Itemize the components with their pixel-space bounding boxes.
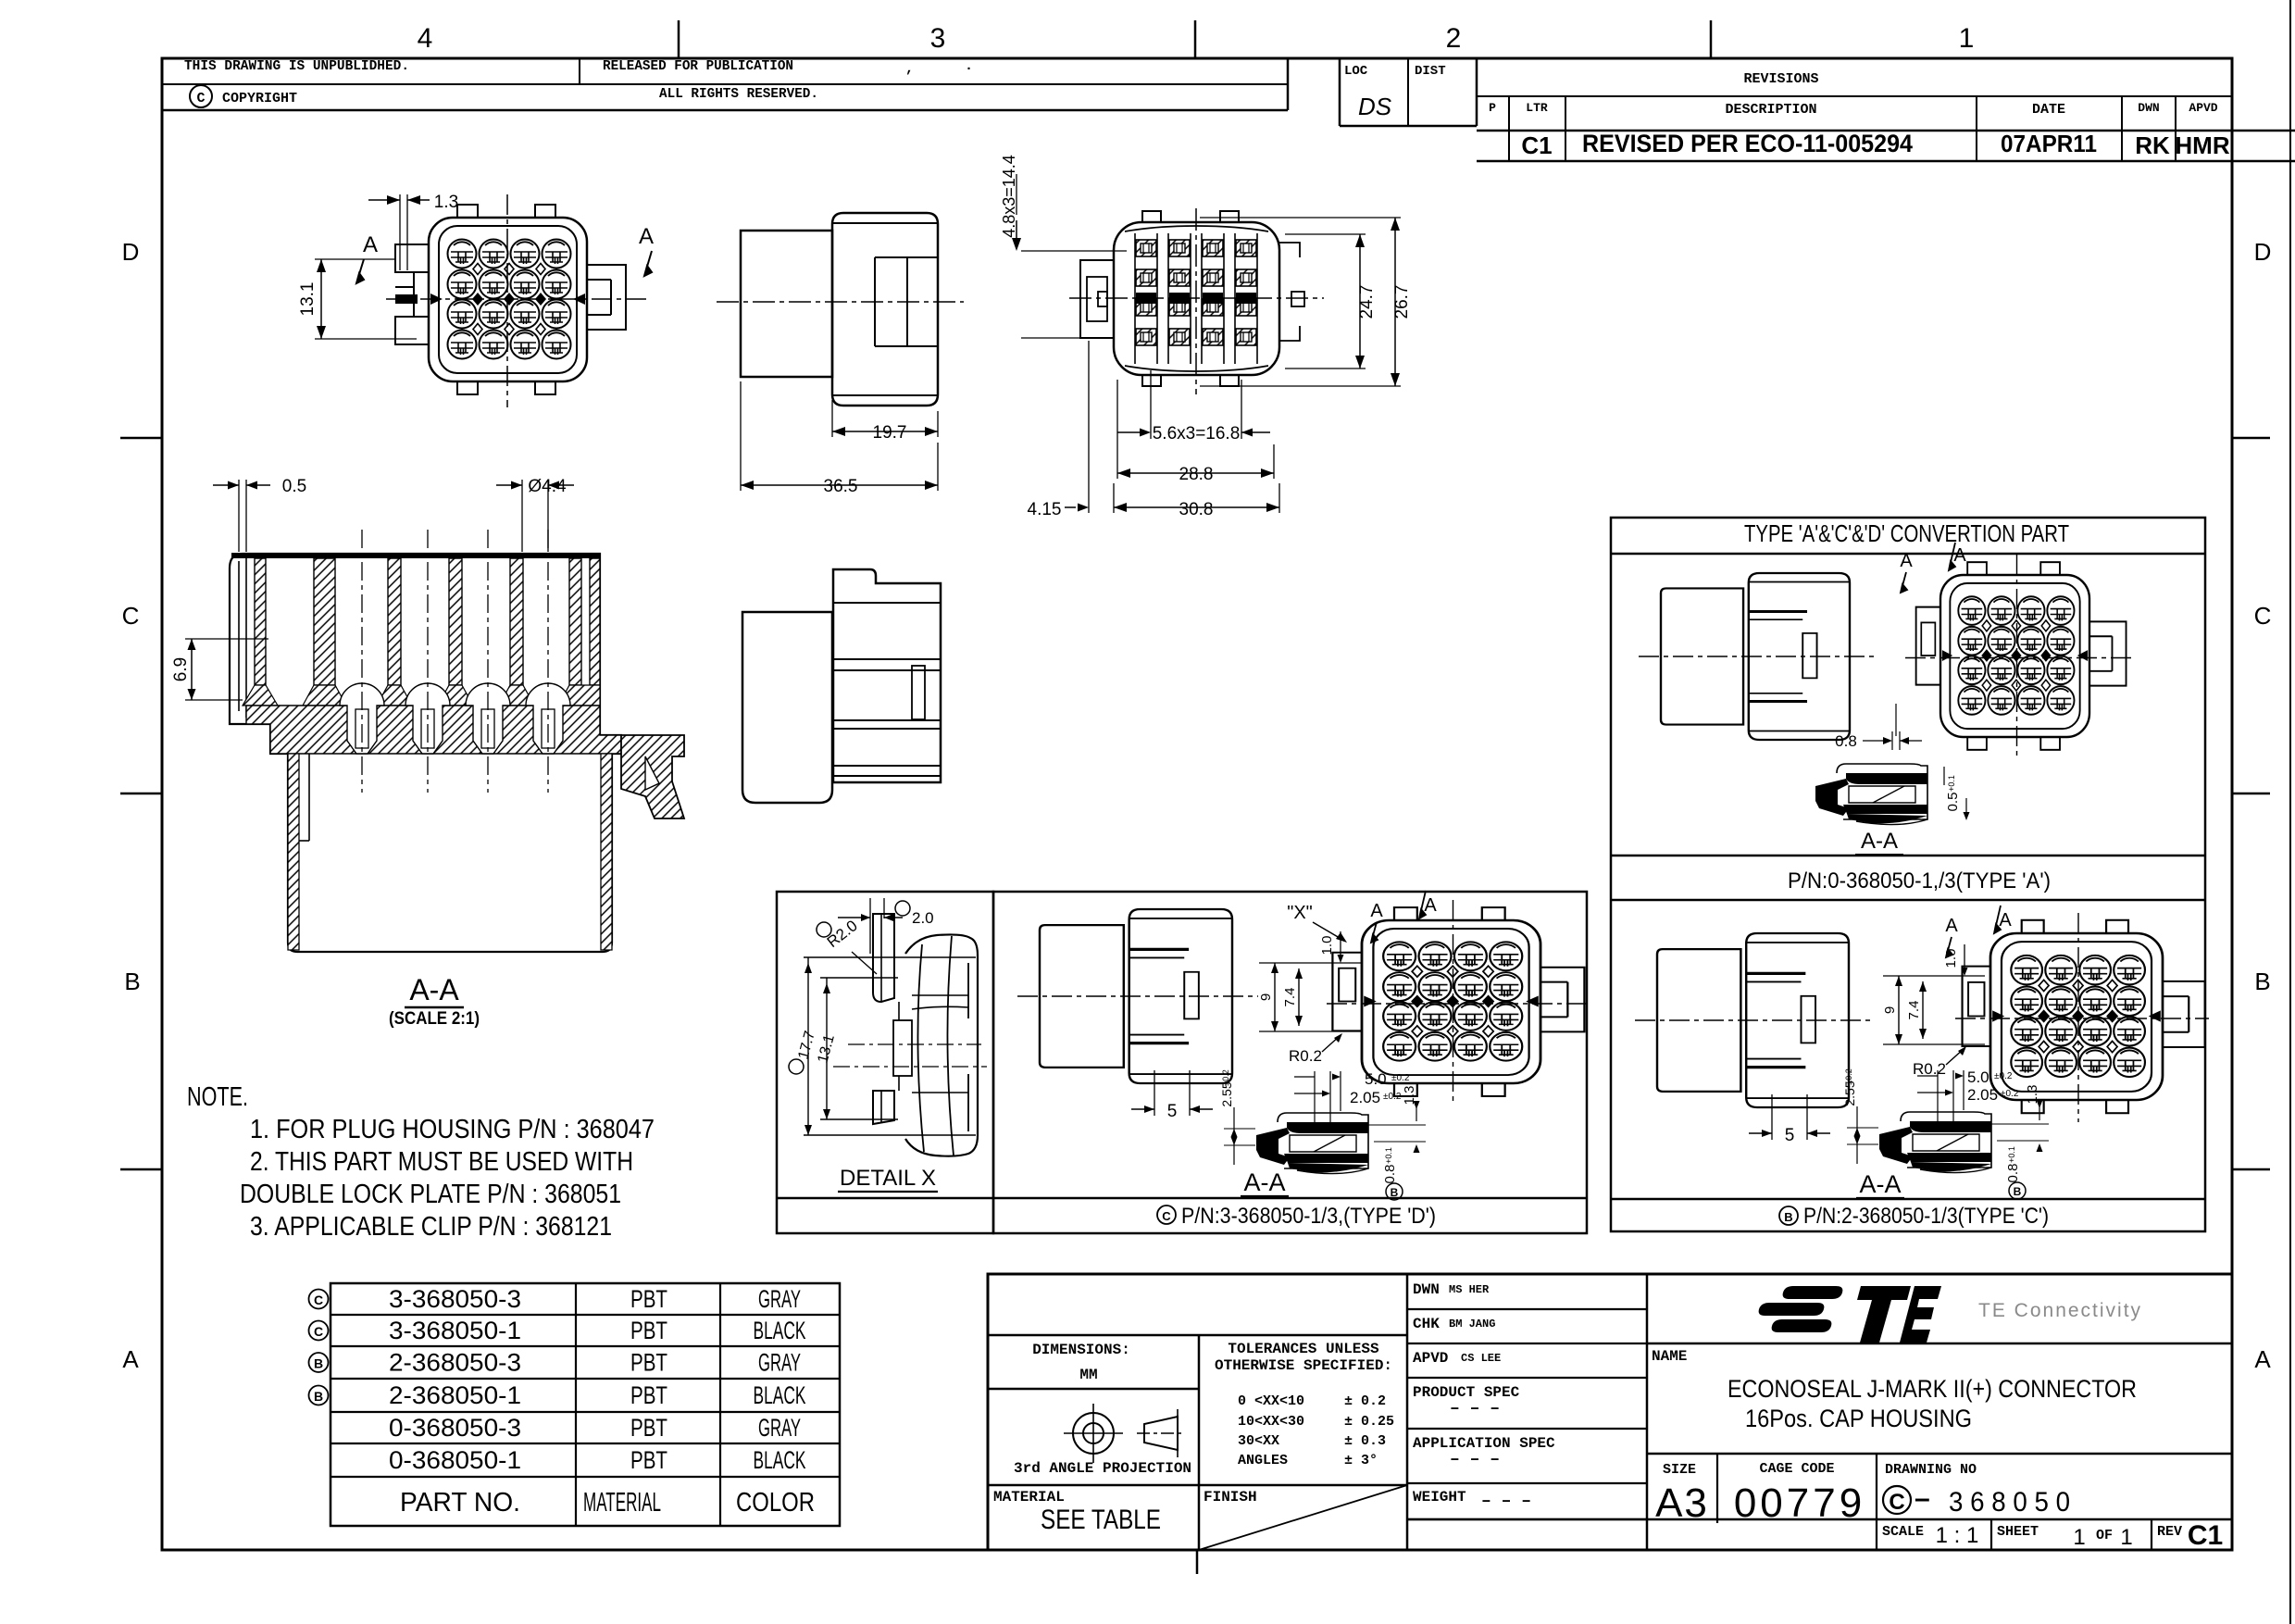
svg-text:1. FOR PLUG HOUSING P/N : 36: 1. FOR PLUG HOUSING P/N : 368047 [250, 1115, 655, 1144]
svg-text:BM JANG: BM JANG [1449, 1318, 1495, 1330]
zone tick right B/A [2232, 1168, 2270, 1171]
svg-text:SIZE: SIZE [1663, 1462, 1696, 1478]
svg-text:A-A: A-A [1861, 829, 1898, 854]
dim 6.9 (section) [185, 638, 268, 640]
svg-text:RK: RK [2135, 131, 2170, 159]
svg-text:OF: OF [2096, 1528, 2113, 1543]
svg-text:A: A [1370, 901, 1383, 921]
svg-text:DOUBLE LOCK PLATE P/N : 368051: DOUBLE LOCK PLATE P/N : 368051 [240, 1180, 621, 1209]
svg-text:NAME: NAME [1652, 1348, 1687, 1365]
dim 13.1 (main front view) [315, 258, 396, 260]
svg-text:0.8: 0.8 [2005, 1164, 2021, 1183]
svg-text:2.05: 2.05 [1350, 1089, 1380, 1106]
svg-text:C1: C1 [2188, 1520, 2223, 1551]
LOC box [1339, 58, 1341, 126]
zone tick right D/C [2232, 437, 2270, 440]
centerline main side view [717, 301, 964, 303]
svg-text:5.6x3=16.8: 5.6x3=16.8 [1153, 424, 1241, 443]
svg-text:MM: MM [1079, 1367, 1097, 1383]
dim 28.8 (rear view) [1116, 380, 1118, 479]
svg-text:ANGLES: ANGLES [1238, 1453, 1288, 1468]
svg-text:B: B [1391, 1186, 1399, 1199]
svg-text:B: B [124, 968, 140, 995]
svg-text:0-368050-3: 0-368050-3 [389, 1414, 521, 1442]
svg-text:B: B [314, 1356, 323, 1371]
zone tick top 4/3 [678, 20, 680, 58]
3rd angle projection cell [988, 1484, 1407, 1487]
svg-text:2.0: 2.0 [912, 909, 934, 927]
drawing number C-368050 [1883, 1486, 1911, 1514]
svg-text:2: 2 [1446, 23, 1462, 54]
svg-text:16Pos. CAP HOUSING: 16Pos. CAP HOUSING [1745, 1405, 1972, 1432]
copyright symbol [190, 85, 212, 107]
TYPE A mini section A-A [1815, 764, 1927, 825]
dim 9 (type D) [1259, 962, 1361, 964]
svg-text:A-A: A-A [1243, 1168, 1285, 1196]
P/N TYPE C label [1779, 1206, 1798, 1225]
svg-text:A: A [363, 232, 378, 257]
svg-text:C: C [1162, 1209, 1171, 1223]
svg-text:C: C [1889, 1490, 1904, 1515]
dim 26.7 (rear view) [1200, 217, 1401, 219]
svg-text:TE Connectivity: TE Connectivity [1978, 1300, 2142, 1321]
svg-text:PRODUCT SPEC: PRODUCT SPEC [1413, 1384, 1520, 1401]
svg-text:5: 5 [1167, 1102, 1178, 1121]
svg-text:WEIGHT: WEIGHT [1413, 1489, 1466, 1505]
projection symbol cone [1144, 1417, 1178, 1450]
svg-text:BLACK: BLACK [754, 1381, 806, 1409]
dims mini section (type C) [1937, 1070, 1939, 1121]
svg-text:+0.1: +0.1 [1947, 775, 1956, 792]
TYPE A front view [1916, 562, 2127, 750]
dim 30.8 (rear view) [1113, 483, 1115, 513]
svg-text:PBT: PBT [630, 1349, 667, 1377]
svg-text:COPYRIGHT: COPYRIGHT [222, 91, 297, 106]
svg-text:13.1: 13.1 [298, 282, 318, 317]
svg-text:3: 3 [930, 23, 946, 54]
svg-text:± 0.2: ± 0.2 [1344, 1393, 1386, 1409]
svg-text:CHK: CHK [1413, 1316, 1440, 1332]
svg-text:A: A [1953, 545, 1966, 566]
svg-text:CAGE CODE: CAGE CODE [1759, 1461, 1834, 1477]
svg-text:±0.2: ±0.2 [1383, 1092, 1402, 1102]
svg-text:A-A: A-A [1859, 1170, 1901, 1198]
dim 19.7 [831, 400, 833, 437]
svg-text:1.0: 1.0 [1319, 936, 1335, 956]
svg-text:1.3: 1.3 [434, 193, 458, 212]
svg-text:A: A [122, 1345, 139, 1373]
svg-text:B: B [1784, 1210, 1792, 1224]
svg-text:B: B [2254, 968, 2270, 995]
svg-text:5.0: 5.0 [1365, 1070, 1387, 1088]
DETAIL X box [777, 892, 993, 1233]
svg-text:4: 4 [418, 23, 433, 54]
svg-text:± 0.3: ± 0.3 [1344, 1433, 1386, 1449]
svg-text:DWN: DWN [2138, 101, 2159, 115]
TYPE C front view [1963, 920, 2205, 1113]
svg-text:DATE: DATE [2032, 102, 2065, 118]
svg-text:SEE TABLE: SEE TABLE [1041, 1505, 1161, 1535]
svg-text:6.9: 6.9 [171, 657, 191, 681]
dimensions cell [988, 1334, 1407, 1337]
leader to section (type A) [1895, 704, 1897, 736]
dim 4.15 (rear view) [1088, 341, 1090, 513]
svg-text:±0.2: ±0.2 [1391, 1073, 1410, 1083]
dim 2.0 (detail X) [869, 898, 871, 954]
dim R2.0 (detail X) [817, 922, 831, 937]
svg-text:REVISIONS: REVISIONS [1743, 71, 1818, 87]
svg-text:0.5: 0.5 [1945, 793, 1961, 812]
dim 36.5 [740, 381, 742, 491]
svg-text:APPLICATION SPEC: APPLICATION SPEC [1413, 1435, 1555, 1452]
svg-text:5: 5 [1785, 1126, 1795, 1145]
svg-text:±0.2: ±0.2 [1221, 1069, 1230, 1085]
svg-text:07APR11: 07APR11 [2001, 130, 2097, 157]
TYPE D mini section A-A [1256, 1113, 1368, 1174]
svg-text:3rd ANGLE PROJECTION: 3rd ANGLE PROJECTION [1014, 1460, 1191, 1477]
svg-text:C: C [314, 1293, 323, 1307]
dim 5 (type D side view) [1154, 1070, 1155, 1116]
svg-text:DRAWNING NO: DRAWNING NO [1885, 1462, 1977, 1478]
svg-text:LTR: LTR [1526, 101, 1548, 115]
zone tick bottom 2/1 [1196, 1550, 1199, 1574]
svg-text:3 6 8 0 5 0: 3 6 8 0 5 0 [1949, 1487, 2070, 1518]
svg-text:DWN: DWN [1413, 1281, 1440, 1298]
svg-text:B: B [2014, 1185, 2022, 1198]
svg-text:P: P [1489, 101, 1496, 115]
svg-text:DIST: DIST [1415, 64, 1446, 79]
svg-text:5.0: 5.0 [1967, 1068, 1989, 1086]
svg-text:D: D [122, 238, 140, 266]
svg-text:C: C [196, 91, 205, 106]
zone tick left C/B [120, 793, 162, 795]
TYPE C mini section A-A [1879, 1112, 1991, 1173]
parts table [331, 1283, 840, 1526]
svg-text:SHEET: SHEET [1997, 1524, 2039, 1540]
main side view [741, 213, 938, 406]
svg-text:19.7: 19.7 [873, 423, 907, 443]
svg-text:.: . [965, 58, 973, 74]
svg-text:DIMENSIONS:: DIMENSIONS: [1032, 1342, 1130, 1358]
svg-text:±0.2: ±0.2 [2001, 1089, 2019, 1099]
svg-text:PBT: PBT [630, 1414, 667, 1442]
svg-text:TYPE 'A'&'C'&'D' CONVERTION PA: TYPE 'A'&'C'&'D' CONVERTION PART [1744, 519, 2069, 547]
svg-text:9: 9 [1882, 1006, 1898, 1014]
zone tick left D/C [120, 437, 162, 440]
zone tick top 3/2 [1194, 20, 1197, 58]
TYPE D side view [1040, 909, 1232, 1083]
DETAIL X drawing: rotated housing top view [804, 914, 987, 1156]
svg-text:2-368050-3: 2-368050-3 [389, 1349, 521, 1377]
svg-text:MATERIAL: MATERIAL [583, 1488, 661, 1518]
TYPE A&C&D convertion part box [1611, 518, 2205, 1231]
zone tick right C/B [2232, 793, 2270, 795]
svg-text:ALL RIGHTS RESERVED.: ALL RIGHTS RESERVED. [659, 86, 818, 102]
second side view (middle) [742, 569, 941, 803]
svg-text:B: B [314, 1389, 323, 1404]
svg-text:30.8: 30.8 [1179, 500, 1214, 519]
svg-text:THIS DRAWING IS UNPUBLIDHED.: THIS DRAWING IS UNPUBLIDHED. [184, 58, 409, 74]
svg-text:REVISED PER ECO-11-005294: REVISED PER ECO-11-005294 [1582, 130, 1913, 157]
svg-text:1.0: 1.0 [1943, 949, 1959, 968]
svg-text:HMR: HMR [2175, 131, 2229, 159]
svg-text:APVD: APVD [1413, 1350, 1448, 1367]
svg-text:RELEASED FOR PUBLICATION: RELEASED FOR PUBLICATION [603, 58, 793, 74]
dim 0.5 (section) [238, 480, 240, 552]
middle column rows DWN/CHK/APVD/SPECS [1407, 1308, 1647, 1310]
svg-text:PBT: PBT [630, 1317, 667, 1344]
svg-text:R0.2: R0.2 [1913, 1060, 1946, 1078]
svg-text:24.7: 24.7 [1357, 285, 1377, 319]
svg-text:TOLERANCES UNLESS: TOLERANCES UNLESS [1228, 1341, 1379, 1357]
svg-text:COLOR: COLOR [736, 1488, 815, 1518]
svg-text:MS HER: MS HER [1449, 1283, 1490, 1296]
dim 5.6x3=16.8 (rear view) [1150, 370, 1152, 439]
svg-text:– – –: – – – [1481, 1493, 1531, 1511]
svg-text:REV: REV [2157, 1524, 2182, 1540]
svg-text:36.5: 36.5 [824, 477, 858, 496]
dim dia 4.4 (section) [521, 480, 523, 552]
TYPE D front view [1332, 907, 1584, 1096]
main front view: 16-pos cap housing face [386, 194, 648, 407]
TYPE A side view [1661, 573, 1850, 740]
svg-text:0.8: 0.8 [1835, 732, 1857, 750]
svg-text:± 0.25: ± 0.25 [1344, 1414, 1394, 1430]
svg-text:4.15: 4.15 [1028, 500, 1062, 519]
TE logo band [1647, 1343, 2232, 1345]
svg-text:1: 1 [2120, 1525, 2132, 1550]
dim 17.7 (detail X) [789, 1059, 804, 1074]
svg-text:R0.2: R0.2 [1289, 1047, 1322, 1065]
svg-text:1: 1 [1959, 23, 1975, 54]
svg-text:PBT: PBT [630, 1446, 667, 1474]
zone tick left B/A [120, 1168, 162, 1171]
svg-text:NOTE.: NOTE. [187, 1082, 248, 1112]
svg-text:3. APPLICABLE CLIP P/N : 36812: 3. APPLICABLE CLIP P/N : 368121 [250, 1212, 612, 1242]
svg-text:PBT: PBT [630, 1285, 667, 1313]
P/N TYPE D label [1157, 1206, 1176, 1224]
title block outline [988, 1274, 2232, 1550]
svg-text:10<XX<30: 10<XX<30 [1238, 1414, 1304, 1430]
svg-text:A: A [639, 224, 654, 249]
svg-text:1: 1 [2073, 1525, 2085, 1550]
rear view: 16-pos housing rear [1069, 208, 1324, 394]
svg-text:C: C [2254, 602, 2272, 630]
svg-text:2-368050-1: 2-368050-1 [389, 1381, 521, 1409]
svg-text:DETAIL X: DETAIL X [840, 1166, 936, 1191]
svg-text:C: C [314, 1324, 323, 1339]
svg-text:A: A [2254, 1345, 2271, 1373]
svg-text:A: A [1945, 916, 1958, 936]
svg-text:FINISH: FINISH [1204, 1489, 1257, 1505]
svg-text:26.7: 26.7 [1392, 285, 1412, 319]
size/cage/drawing row [1647, 1453, 2232, 1455]
dim 9 (type C) [1883, 975, 1985, 977]
svg-text:3-368050-3: 3-368050-3 [389, 1285, 521, 1313]
svg-text:4.8x3=14.4: 4.8x3=14.4 [1000, 155, 1018, 238]
svg-text:Ø4.4: Ø4.4 [528, 477, 567, 496]
scale/sheet/rev row [1407, 1518, 2232, 1521]
projection symbol target [1073, 1413, 1114, 1454]
svg-text:P/N:2-368050-1/3(TYPE 'C'): P/N:2-368050-1/3(TYPE 'C') [1803, 1204, 2049, 1229]
svg-text:28.8: 28.8 [1179, 465, 1214, 484]
dim 24.7 (rear view) [1285, 233, 1366, 235]
svg-text:(SCALE 2:1): (SCALE 2:1) [389, 1009, 480, 1029]
svg-text:PART NO.: PART NO. [400, 1488, 520, 1518]
svg-text:BLACK: BLACK [754, 1317, 806, 1344]
TYPE D box [993, 892, 1587, 1233]
sheet outer edge line (right) [2289, 0, 2291, 1624]
svg-text:"X": "X" [1287, 903, 1313, 923]
svg-text:0 <XX<10: 0 <XX<10 [1238, 1393, 1304, 1409]
svg-text:CS LEE: CS LEE [1461, 1352, 1501, 1365]
svg-text:A-A: A-A [409, 973, 459, 1006]
svg-text:DESCRIPTION: DESCRIPTION [1725, 102, 1816, 118]
svg-text:0.8: 0.8 [1382, 1165, 1398, 1184]
svg-text:GRAY: GRAY [758, 1285, 801, 1313]
svg-text:9: 9 [1258, 993, 1274, 1001]
TYPE C side view [1657, 933, 1849, 1107]
finish diagonal [1199, 1485, 1407, 1550]
svg-text:DS: DS [1358, 93, 1392, 120]
svg-text:2. THIS PART MUST BE USED WITH: 2. THIS PART MUST BE USED WITH [250, 1147, 633, 1177]
svg-text:OTHERWISE SPECIFIED:: OTHERWISE SPECIFIED: [1215, 1357, 1392, 1374]
svg-text:GRAY: GRAY [758, 1414, 801, 1442]
svg-text:P/N:0-368050-1,/3(TYPE 'A'): P/N:0-368050-1,/3(TYPE 'A') [1788, 868, 2051, 893]
svg-text:±0.2: ±0.2 [1994, 1071, 2013, 1081]
REVISIONS table [1477, 95, 2232, 97]
svg-text:+0.1: +0.1 [1384, 1147, 1393, 1164]
dim 5 (type C side view) [1771, 1094, 1773, 1140]
svg-text:– – –: – – – [1450, 1451, 1500, 1469]
dim 7.4 (type D) [1298, 968, 1300, 1026]
svg-text:– – –: – – – [1450, 1400, 1500, 1418]
svg-text:7.4: 7.4 [1906, 1001, 1922, 1020]
svg-text:0-368050-1: 0-368050-1 [389, 1446, 521, 1474]
svg-text:A: A [1424, 895, 1437, 916]
header strip box [162, 83, 1288, 85]
svg-text:GRAY: GRAY [758, 1349, 801, 1377]
dim 1.3 (main front view) [399, 194, 401, 270]
svg-text:BLACK: BLACK [754, 1446, 806, 1474]
TE logo [1759, 1286, 1941, 1343]
svg-text:C1: C1 [1521, 131, 1552, 159]
svg-text:SCALE: SCALE [1882, 1524, 1924, 1540]
svg-text:30<XX: 30<XX [1238, 1433, 1279, 1449]
svg-text:,: , [905, 61, 914, 77]
svg-text:3-368050-1: 3-368050-1 [389, 1317, 521, 1344]
title block vertical dividers [1406, 1274, 1409, 1550]
section A-A cross-section [230, 530, 684, 952]
svg-text:1 : 1: 1 : 1 [1936, 1523, 1979, 1548]
svg-text:MATERIAL: MATERIAL [993, 1489, 1065, 1505]
svg-text:0.5: 0.5 [282, 477, 306, 496]
zone tick top 2/1 [1710, 20, 1713, 58]
svg-text:LOC: LOC [1344, 64, 1368, 79]
svg-text:A: A [1999, 910, 2012, 931]
dims mini section (type D) [1314, 1071, 1316, 1122]
dim 7.4 (type C) [1922, 981, 1924, 1039]
svg-text:PBT: PBT [630, 1381, 667, 1409]
svg-text:+0.1: +0.1 [2007, 1146, 2016, 1163]
svg-text:P/N:3-368050-1/3,(TYPE 'D'): P/N:3-368050-1/3,(TYPE 'D') [1181, 1204, 1436, 1229]
svg-text:–: – [1915, 1483, 1930, 1514]
svg-text:D: D [2254, 238, 2272, 266]
svg-text:ECONOSEAL J-MARK II(+) CONNECT: ECONOSEAL J-MARK II(+) CONNECTOR [1727, 1375, 2137, 1403]
svg-text:A: A [1900, 551, 1913, 571]
svg-text:7.4: 7.4 [1282, 988, 1298, 1007]
svg-text:±0.2: ±0.2 [1844, 1068, 1853, 1084]
svg-text:2.05: 2.05 [1967, 1086, 1998, 1104]
svg-text:C: C [122, 602, 140, 630]
svg-text:± 3°: ± 3° [1344, 1453, 1378, 1468]
svg-text:APVD: APVD [2189, 101, 2217, 115]
